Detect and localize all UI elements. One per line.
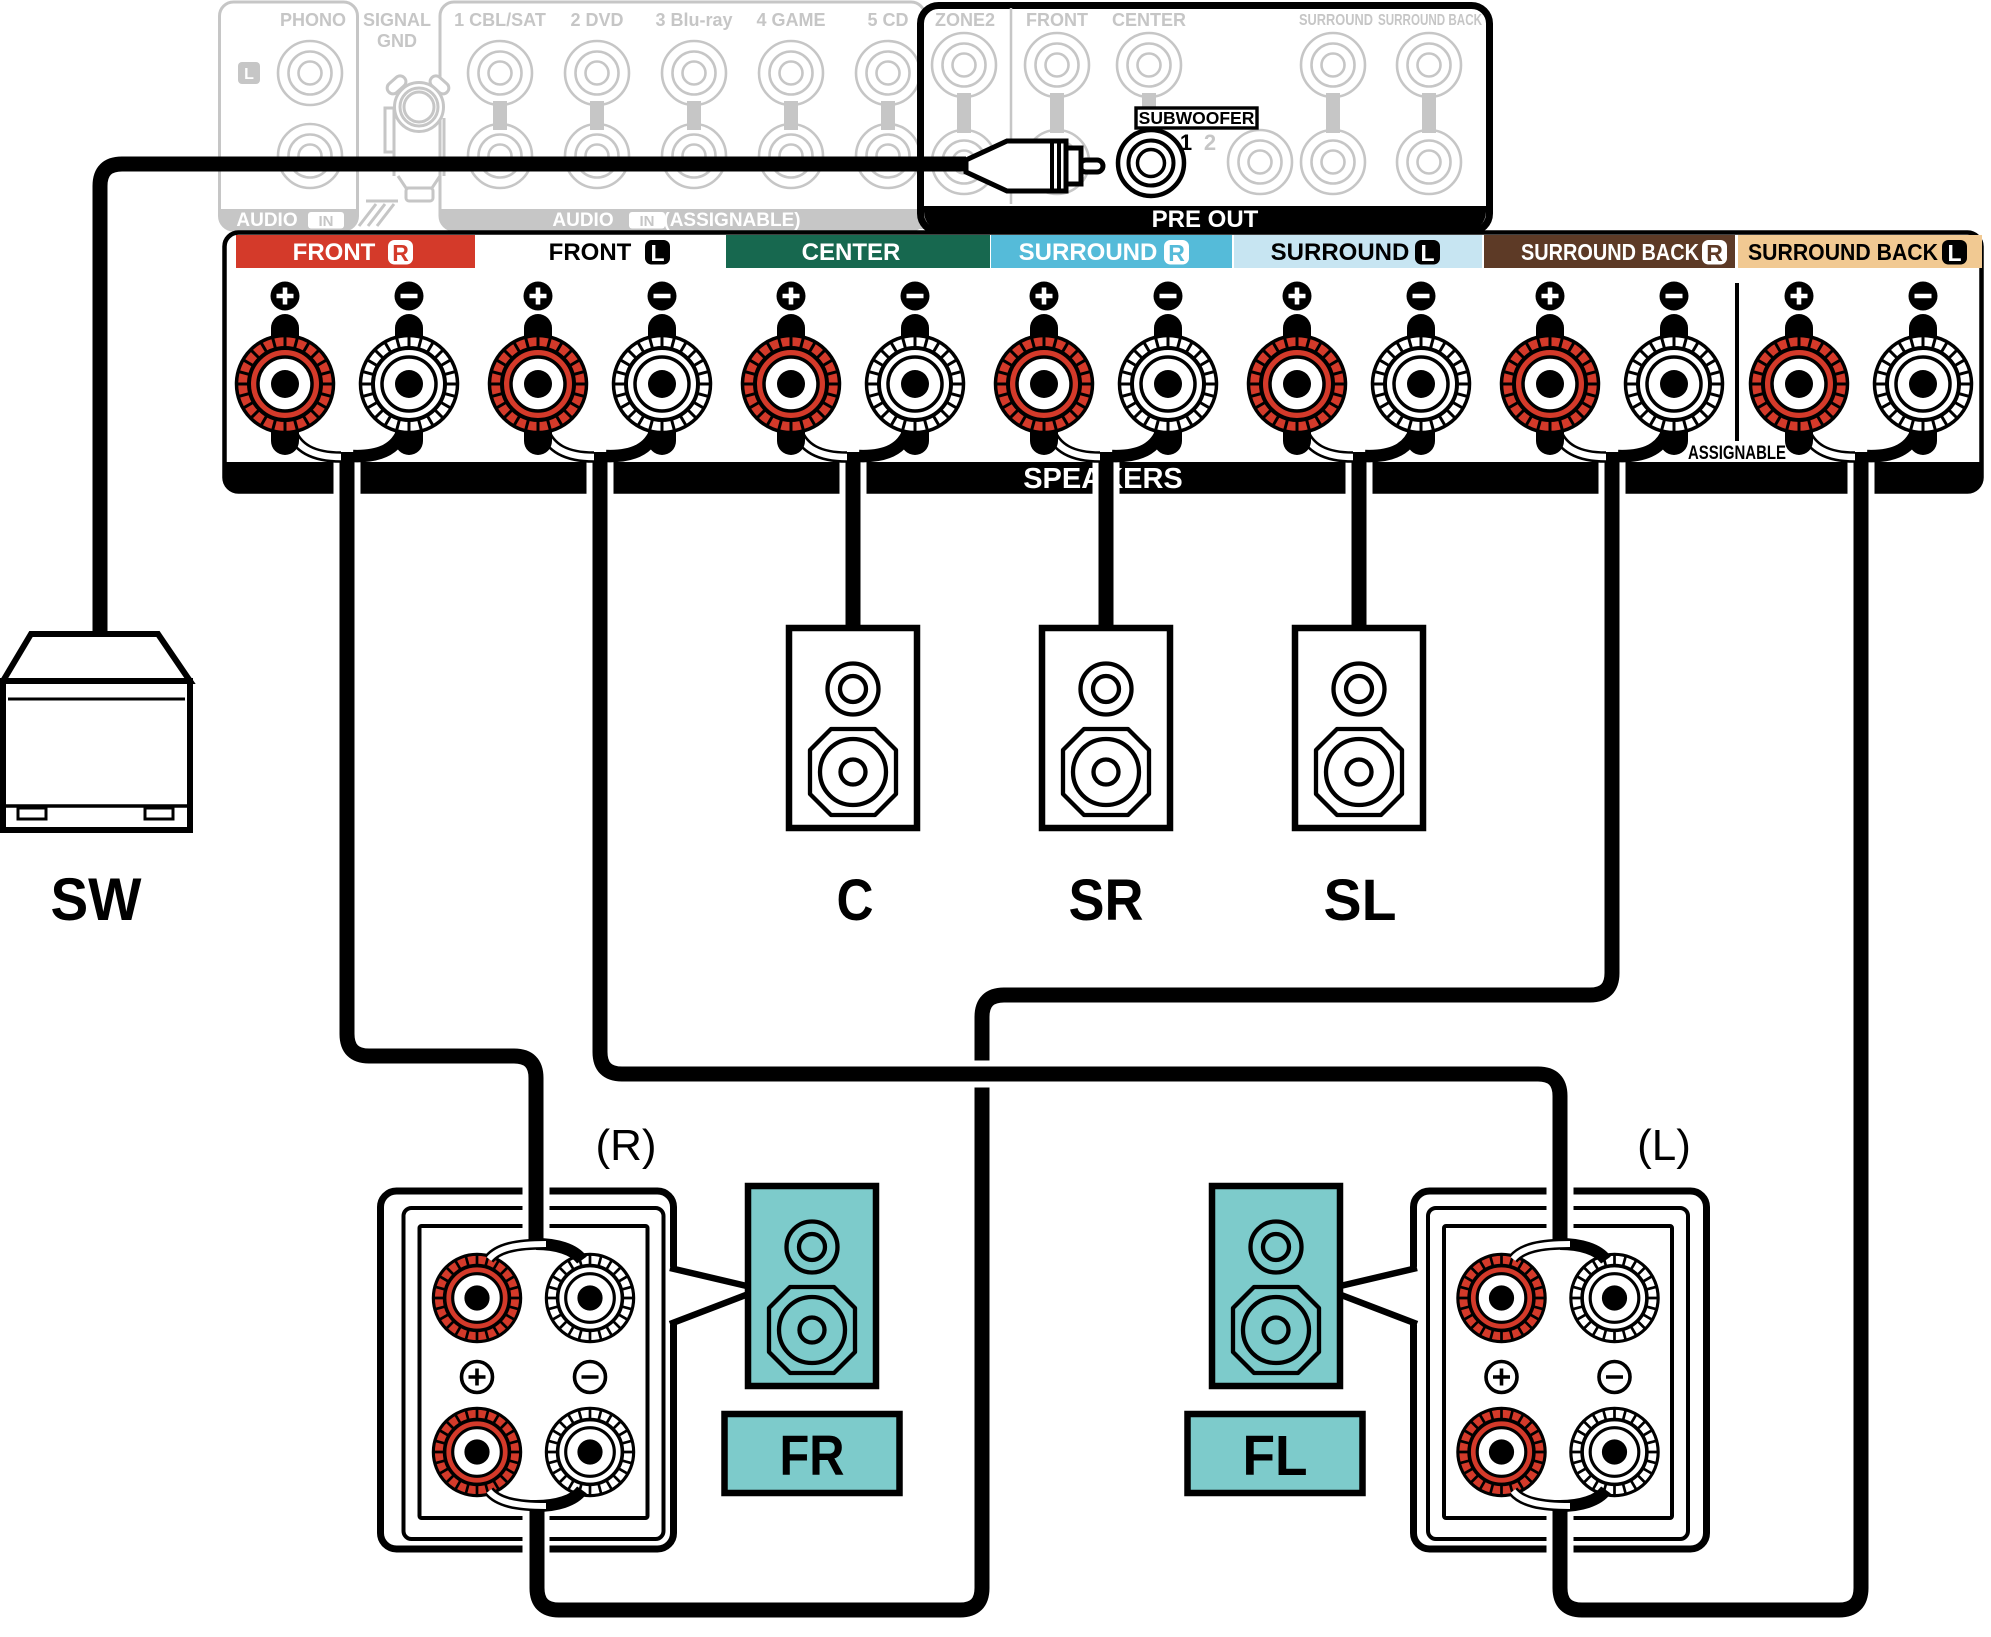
svg-text:SURROUND: SURROUND (1299, 12, 1373, 29)
svg-text:2: 2 (1204, 130, 1216, 155)
svg-text:(ASSIGNABLE): (ASSIGNABLE) (663, 210, 800, 231)
svg-text:IN: IN (319, 213, 334, 230)
svg-text:FRONT: FRONT (293, 239, 376, 266)
svg-text:C: C (837, 868, 874, 933)
svg-text:L: L (1420, 240, 1434, 266)
svg-text:CENTER: CENTER (1112, 10, 1186, 30)
svg-text:L: L (1947, 240, 1961, 266)
svg-text:SURROUND: SURROUND (1019, 239, 1158, 266)
svg-text:R: R (1168, 240, 1185, 266)
svg-text:FL: FL (1243, 1424, 1308, 1488)
svg-text:L: L (244, 66, 254, 83)
svg-text:AUDIO: AUDIO (236, 210, 297, 231)
svg-text:1: 1 (1180, 130, 1192, 155)
svg-text:PHONO: PHONO (280, 10, 346, 30)
svg-text:FRONT: FRONT (549, 239, 632, 266)
svg-text:1 CBL/SAT: 1 CBL/SAT (454, 10, 546, 30)
svg-text:SURROUND: SURROUND (1271, 239, 1410, 266)
svg-text:(R): (R) (595, 1121, 656, 1170)
svg-text:2 DVD: 2 DVD (570, 10, 623, 30)
svg-text:L: L (650, 240, 664, 266)
svg-text:FR: FR (780, 1424, 845, 1488)
svg-text:AUDIO: AUDIO (552, 210, 613, 231)
svg-text:SURROUND BACK: SURROUND BACK (1748, 239, 1938, 265)
svg-text:ZONE2: ZONE2 (935, 10, 995, 30)
svg-text:5 CD: 5 CD (867, 10, 908, 30)
svg-text:SURROUND BACK: SURROUND BACK (1521, 239, 1699, 265)
svg-text:3 Blu-ray: 3 Blu-ray (655, 10, 732, 30)
svg-text:SL: SL (1324, 868, 1397, 933)
svg-text:SR: SR (1069, 868, 1144, 933)
svg-text:SIGNAL: SIGNAL (363, 10, 431, 30)
svg-text:IN: IN (640, 213, 655, 230)
svg-text:FRONT: FRONT (1026, 10, 1088, 30)
svg-text:ASSIGNABLE: ASSIGNABLE (1688, 443, 1786, 464)
svg-text:SURROUND BACK: SURROUND BACK (1378, 12, 1482, 29)
svg-text:4 GAME: 4 GAME (756, 10, 825, 30)
svg-text:SUBWOOFER: SUBWOOFER (1139, 108, 1255, 128)
svg-text:(L): (L) (1637, 1121, 1691, 1170)
svg-text:GND: GND (377, 31, 417, 51)
svg-text:R: R (392, 240, 409, 266)
svg-text:CENTER: CENTER (802, 239, 901, 266)
svg-text:PRE OUT: PRE OUT (1152, 206, 1259, 233)
svg-text:SW: SW (51, 866, 142, 933)
svg-text:R: R (1706, 240, 1723, 266)
